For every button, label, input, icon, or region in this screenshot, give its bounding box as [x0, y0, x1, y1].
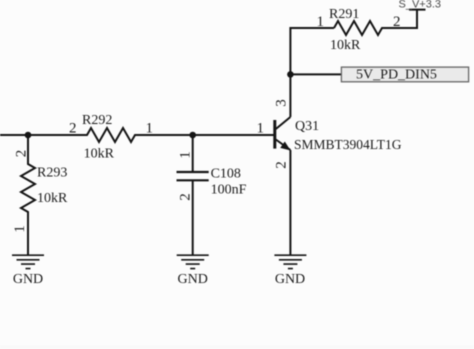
svg-text:2: 2	[14, 150, 30, 158]
svg-text:R292: R292	[82, 113, 112, 128]
svg-text:GND: GND	[178, 272, 208, 287]
svg-text:10kR: 10kR	[37, 191, 68, 206]
svg-text:2: 2	[393, 14, 401, 30]
svg-text:10kR: 10kR	[330, 38, 361, 53]
svg-text:R293: R293	[37, 166, 67, 181]
svg-text:1: 1	[146, 121, 154, 137]
svg-text:5V_PD_DIN5: 5V_PD_DIN5	[356, 67, 437, 82]
svg-text:S_V+3.3: S_V+3.3	[399, 0, 442, 10]
svg-text:1: 1	[317, 14, 325, 30]
svg-text:2: 2	[69, 121, 77, 137]
svg-text:1: 1	[178, 151, 194, 159]
svg-text:Q31: Q31	[295, 119, 319, 134]
svg-text:100nF: 100nF	[211, 182, 247, 197]
svg-text:2: 2	[178, 193, 194, 201]
svg-text:C108: C108	[211, 167, 241, 182]
svg-text:3: 3	[274, 99, 290, 107]
svg-text:1: 1	[12, 225, 28, 233]
svg-text:10kR: 10kR	[84, 146, 115, 161]
svg-text:1: 1	[257, 121, 265, 137]
svg-text:SMMBT3904LT1G: SMMBT3904LT1G	[294, 137, 402, 152]
svg-text:2: 2	[274, 161, 290, 169]
svg-text:R291: R291	[329, 7, 359, 22]
svg-text:GND: GND	[13, 272, 43, 287]
svg-text:GND: GND	[275, 272, 305, 287]
